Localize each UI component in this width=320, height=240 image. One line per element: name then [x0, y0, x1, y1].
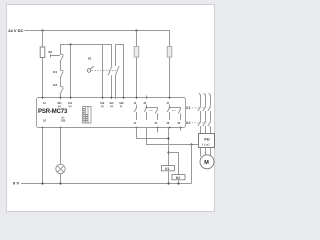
wire branch to K2 coil: [169, 153, 179, 175]
contact 57-58: [178, 109, 181, 120]
wire 58 stub: [180, 128, 182, 131]
motor M1: [200, 155, 214, 169]
mech link dashed 48-58: [172, 109, 176, 111]
wire channel1 lower lead: [111, 75, 113, 99]
wire F3 to terminal 47: [169, 57, 171, 99]
node junction A2/0V: [41, 182, 43, 184]
contact S1 channel2 blade: [116, 66, 120, 76]
svg-text:(+): (+): [58, 104, 61, 108]
svg-text:K1: K1: [165, 167, 169, 171]
fuse FU box: [199, 134, 215, 148]
terminal S11 dot: [70, 97, 72, 99]
svg-text:S2: S2: [48, 50, 52, 54]
mech link dashed 24-34: [149, 109, 153, 111]
wire 14 to coil bus: [137, 128, 169, 139]
wire K2 coil to 0V: [178, 180, 180, 184]
node junction 24wire drop: [190, 143, 192, 145]
wire K2 to S34: [60, 94, 62, 99]
wire lamp to 0V: [60, 174, 62, 184]
terminal 23 dot: [146, 97, 148, 99]
coil K2: [172, 175, 185, 180]
terminal S12 dot: [102, 97, 104, 99]
terminal 13 dot: [136, 97, 138, 99]
wire 0V rail: [21, 183, 192, 185]
logic module hatch marks: [83, 109, 88, 121]
contact 13-14: [134, 105, 137, 121]
wire channel2 lower lead: [115, 75, 117, 99]
contact S1 channel1 blade: [108, 66, 112, 76]
terminal S21 dot: [111, 97, 113, 99]
switch S2 actuator: [51, 54, 60, 57]
switch S2 contact: [60, 55, 64, 62]
wire jumper 47 to 57: [170, 108, 181, 109]
button S1 actuator: [87, 69, 91, 73]
wire rail to fuse F1: [42, 31, 44, 48]
svg-text:K1: K1: [53, 70, 57, 74]
wire S35 to lamp: [60, 128, 62, 165]
wire phase L1: [198, 93, 201, 133]
wire 48 down to K1 coil: [168, 128, 170, 166]
wire S2 to K1 contact: [60, 62, 62, 71]
svg-text:M: M: [204, 160, 209, 166]
wire F1 to A1: [42, 58, 44, 100]
wire jumper 23 to 33: [147, 108, 158, 109]
wire S11 node horizontal: [61, 45, 103, 55]
wire 24V rail: [25, 30, 170, 32]
svg-text:S35: S35: [61, 119, 66, 123]
svg-text:6 A gG: 6 A gG: [202, 142, 210, 146]
wire K1 coil to 0V: [168, 171, 170, 184]
node junction bus/48: [167, 137, 169, 139]
terminal S35 dot: [60, 127, 62, 129]
wire rail corner to fuse F3: [169, 30, 171, 47]
wire 24 to FU: [147, 128, 199, 145]
node junction jumper 47: [169, 107, 171, 109]
wire A2 to 0V: [42, 128, 44, 184]
svg-text:24 V DC: 24 V DC: [8, 28, 23, 33]
wire phase L2: [203, 93, 206, 133]
terminal A1 dot: [42, 97, 44, 99]
node junction K2 branch: [167, 151, 169, 153]
terminal 47 dot: [169, 97, 171, 99]
svg-text:(-): (-): [120, 104, 122, 108]
svg-text:K2: K2: [53, 83, 57, 87]
contact K2 blade: [60, 87, 64, 95]
node junction rail/F2: [135, 29, 137, 31]
drawing sheet: [7, 5, 215, 212]
wire loop S21/S22 upper: [116, 45, 124, 100]
node junction rail/F1: [41, 29, 43, 31]
contact 47-48: [167, 105, 170, 121]
wire rail to fuse F2: [136, 31, 138, 47]
fuse F2: [134, 47, 139, 58]
coil K1: [162, 166, 175, 171]
svg-text:(+): (+): [69, 104, 72, 108]
wire FU to motor: [201, 148, 211, 158]
fuse F1: [40, 47, 45, 58]
svg-text:(+): (+): [110, 104, 113, 108]
terminal A2 dot: [42, 127, 44, 129]
svg-text:PSR-MC73: PSR-MC73: [38, 109, 68, 115]
svg-text:K2: K2: [186, 121, 190, 125]
contact K1 blade: [60, 71, 64, 79]
contact 23-24: [144, 105, 147, 121]
fuse F3: [167, 47, 172, 58]
terminal 34 dot: [157, 127, 159, 129]
terminal 14 dot: [136, 127, 138, 129]
node junction lamp/0V: [59, 182, 61, 184]
terminal 48 dot: [169, 127, 171, 129]
svg-text:K1: K1: [186, 106, 190, 110]
svg-text:S1: S1: [88, 57, 92, 61]
node junction K1/0V: [167, 182, 169, 184]
node junction K2/0V: [177, 182, 179, 184]
node junction jumper 23: [146, 107, 148, 109]
mech link dashed K1: [192, 107, 208, 109]
wire phase L3: [208, 93, 211, 133]
node junction S11 drop: [69, 43, 71, 45]
mech link dashed K2: [192, 122, 208, 124]
wire F2 to terminal 13: [136, 57, 138, 99]
terminal S22 dot: [123, 97, 125, 99]
wire S1 mechanical link (dashed): [92, 69, 118, 71]
lamp H1: [56, 164, 65, 173]
wire loop S12 leg: [103, 45, 112, 100]
svg-text:0 V: 0 V: [13, 180, 19, 185]
terminal S34 dot: [60, 97, 62, 99]
relay block PSR-MC73 outline: [37, 98, 186, 128]
svg-text:K2: K2: [176, 176, 180, 180]
svg-text:(+): (+): [101, 104, 104, 108]
wire S11 drop: [70, 45, 72, 100]
wire 34 stub: [157, 128, 159, 133]
terminal 58 dot: [180, 127, 182, 129]
logic module box: [83, 107, 92, 124]
svg-text:FU: FU: [204, 136, 209, 141]
wire drop to 0V: [191, 145, 193, 184]
wire K1 to K2 contact: [60, 78, 62, 87]
contact 33-34: [155, 109, 158, 120]
